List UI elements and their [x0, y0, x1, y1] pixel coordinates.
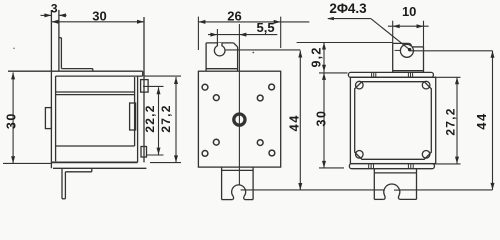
svg-text:2Φ4.3: 2Φ4.3 — [329, 1, 367, 16]
svg-text:27,2: 27,2 — [444, 107, 458, 135]
svg-text:26: 26 — [227, 8, 241, 23]
svg-text:22,2: 22,2 — [143, 104, 157, 132]
svg-text:30: 30 — [4, 112, 18, 129]
svg-text:44: 44 — [286, 114, 301, 131]
svg-text:44: 44 — [474, 112, 489, 129]
svg-text:27,2: 27,2 — [159, 104, 173, 132]
svg-text:30: 30 — [92, 8, 106, 23]
svg-text:5,5: 5,5 — [257, 20, 275, 35]
svg-text:9,2: 9,2 — [310, 47, 324, 68]
svg-text:3: 3 — [51, 2, 58, 16]
svg-text:30: 30 — [315, 110, 329, 127]
svg-text:10: 10 — [402, 4, 416, 19]
